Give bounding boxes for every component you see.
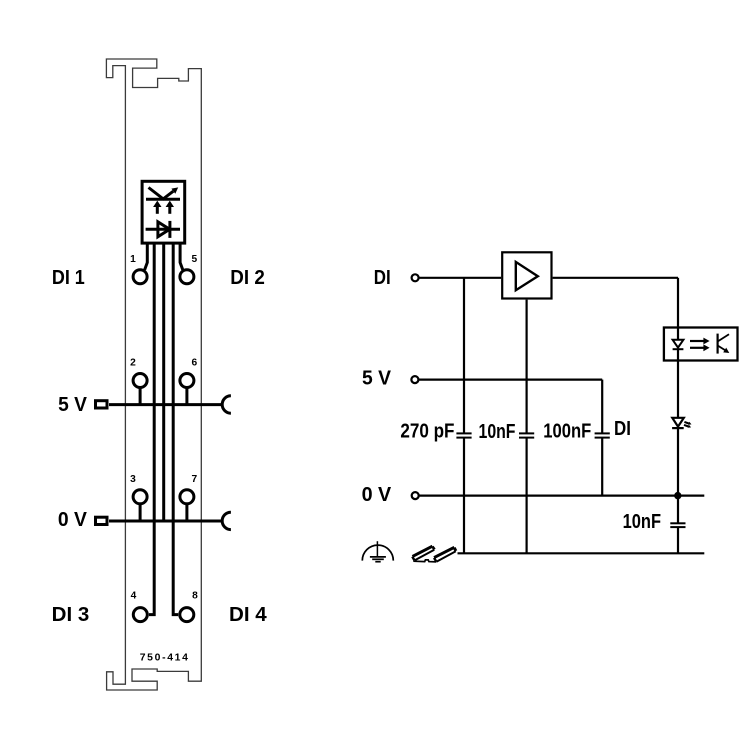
- svg-text:4: 4: [131, 591, 137, 602]
- svg-text:DI: DI: [614, 418, 631, 440]
- svg-text:1: 1: [130, 254, 136, 265]
- svg-text:270 pF: 270 pF: [400, 421, 454, 443]
- svg-text:6: 6: [191, 358, 197, 369]
- svg-text:DI 4: DI 4: [229, 604, 267, 626]
- svg-text:5: 5: [191, 254, 197, 265]
- svg-text:5 V: 5 V: [362, 368, 392, 390]
- svg-text:100nF: 100nF: [543, 420, 591, 442]
- svg-text:DI 3: DI 3: [52, 604, 90, 626]
- svg-text:7: 7: [191, 474, 197, 485]
- svg-text:3: 3: [130, 474, 136, 485]
- svg-text:2: 2: [130, 358, 136, 369]
- svg-text:10nF: 10nF: [479, 421, 516, 443]
- svg-text:5 V: 5 V: [58, 394, 87, 416]
- svg-text:0 V: 0 V: [58, 509, 88, 531]
- svg-text:DI: DI: [374, 267, 391, 289]
- svg-text:DI 1: DI 1: [52, 267, 85, 289]
- svg-text:8: 8: [192, 591, 198, 602]
- svg-text:0 V: 0 V: [362, 484, 392, 506]
- svg-text:DI 2: DI 2: [230, 267, 264, 289]
- svg-text:10nF: 10nF: [623, 511, 661, 533]
